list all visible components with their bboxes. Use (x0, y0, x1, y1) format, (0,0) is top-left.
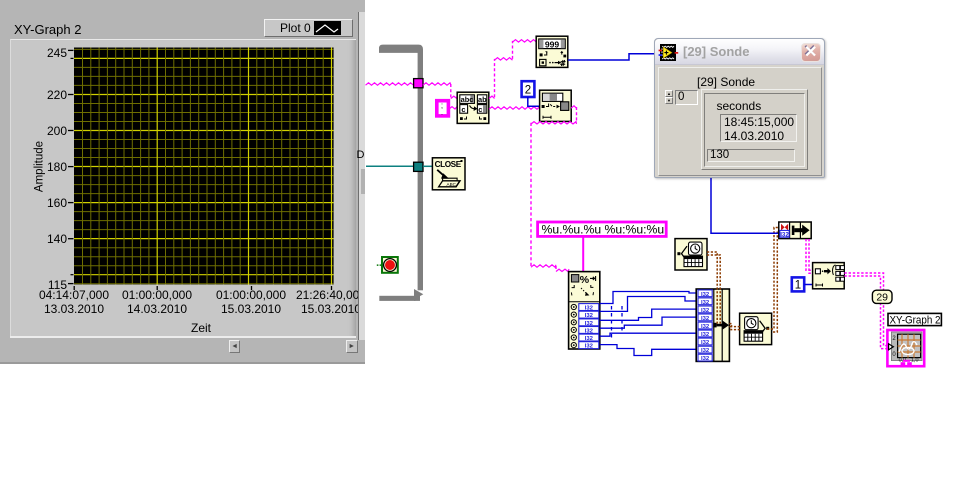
node: Close File (CLOSE) (432, 158, 465, 190)
svg-text:I32: I32 (780, 231, 789, 238)
x axis label Zeit (178, 321, 224, 335)
wire: string constant to Match Pattern (449, 107, 457, 109)
pane (10, 39, 356, 337)
svg-text:I32: I32 (701, 316, 710, 322)
svg-text:%u.%u.%u %u:%u:%u: %u.%u.%u %u:%u:%u (542, 223, 665, 237)
plot legend (264, 19, 353, 37)
wire: match output to Decimal String To Number (489, 96, 495, 98)
wire: constant 1 to Index Array (804, 284, 812, 286)
svg-text:I32: I32 (701, 324, 710, 330)
svg-text:I32: I32 (585, 313, 594, 319)
horizontal scrollbar right button (346, 340, 358, 353)
node: Match Pattern (abc) (457, 92, 489, 123)
130 display (707, 149, 795, 162)
svg-text:I32: I32 (585, 344, 594, 350)
svg-text:I32: I32 (585, 321, 594, 327)
probe icon (660, 44, 676, 61)
label: wire label 29 (872, 290, 892, 303)
index spinner (665, 90, 674, 104)
wire: XY pair array from Build Array to Index Array (806, 239, 813, 270)
close button (801, 43, 821, 63)
svg-text:I32: I32 (701, 348, 710, 354)
wire: numeric from probe window to Build Array (711, 178, 779, 233)
svg-text:ABC: ABC (447, 182, 457, 187)
tunnel: magenta string tunnel on loop border (414, 79, 423, 88)
node: Index Array (813, 263, 845, 289)
title bar (655, 39, 824, 65)
right scrollbar strip (358, 12, 366, 340)
wire: six I32 wires from Scan From String to Bundle (600, 292, 697, 304)
time display (720, 114, 797, 142)
wire: format string to Scan From String (582, 238, 584, 272)
wire: string wire tunnel to vertical drop (423, 83, 451, 85)
wire: string subset output routed down to Scan From String (571, 106, 577, 108)
svg-text:I32: I32 (701, 300, 710, 306)
tunnel: teal refnum tunnel on loop border (414, 162, 423, 171)
svg-text:I32: I32 (585, 336, 594, 342)
svg-text:CLOSE: CLOSE (435, 160, 462, 169)
y scale labels (47, 46, 67, 60)
node: Bundle (date/time record, 9 elements) (696, 289, 729, 362)
svg-text:I32: I32 (701, 292, 710, 298)
wire: cluster from Bundle output to Seconds To Date/Time (729, 324, 740, 327)
window: probe [29] Sonde (654, 38, 825, 178)
svg-text:2: 2 (525, 85, 531, 97)
node: Scan From String (expanded, 6 outputs) (569, 272, 600, 350)
structure: while-loop right border (418, 52, 423, 290)
wire: date/time cluster from Date/Time To Seconds down to Bundle arrow (707, 252, 717, 324)
constant: numeric 2 (522, 81, 535, 97)
horizontal scrollbar left button (229, 340, 241, 353)
structure: while-loop top border (379, 45, 423, 53)
node: Decimal String To Number (999) (536, 36, 568, 67)
wire: constant 2 to String Subset (528, 97, 540, 106)
graph label (14, 22, 81, 37)
svg-text:I32: I32 (701, 308, 710, 314)
terminal: stop button (red/green LED) (382, 257, 398, 273)
seconds label (717, 99, 762, 113)
amplitude axis label (34, 137, 47, 197)
wire: teal refnum wire to Close File (423, 165, 433, 167)
constant: format string %u.%u.%u %u:%u:%u (538, 222, 667, 236)
wire: string vertical drop to Match Pattern (450, 84, 452, 97)
svg-text:I32: I32 (701, 332, 710, 338)
window bottom edge (0, 362, 365, 365)
client area (658, 67, 822, 176)
wire: file refnum wire (teal) from panel (366, 165, 414, 167)
svg-text:29: 29 (876, 292, 888, 304)
stray letter D (357, 149, 365, 161)
constant: numeric 1 (792, 277, 804, 291)
wire: cluster from Seconds To Date/Time up to Build Array (767, 228, 779, 330)
title text (683, 44, 749, 59)
structure: while-loop bottom border with arrow (379, 296, 415, 301)
svg-text:c: c (478, 105, 482, 114)
scrollbar thumb (361, 169, 366, 194)
svg-text:c: c (461, 105, 465, 114)
cluster frame outer (701, 89, 808, 170)
svg-text:XY-Graph 2: XY-Graph 2 (890, 315, 941, 327)
label: XY-Graph 2 terminal label (888, 313, 941, 325)
terminal: XY-Graph 2 indicator (887, 330, 924, 366)
x scale labels (37, 289, 111, 316)
svg-text:999: 999 (545, 39, 560, 49)
svg-text:abc: abc (461, 95, 474, 104)
wire: numeric output to probe window (568, 54, 656, 60)
probe label (697, 75, 755, 89)
wire: string wire from panel to tunnel (366, 83, 415, 85)
svg-text:%: % (580, 274, 590, 286)
svg-text:.: . (441, 108, 443, 117)
svg-text:1,0: 1,0 (911, 358, 919, 364)
node: Seconds To Date/Time (740, 313, 772, 344)
svg-text:I32: I32 (585, 306, 594, 312)
svg-text:1: 1 (795, 280, 801, 292)
node: Date/Time To Seconds (675, 239, 707, 270)
graph plot area and scales (0, 0, 365, 364)
window: XY-Graph front panel (0, 0, 365, 364)
node: String Subset (540, 90, 572, 121)
wire: match output 2 to String Subset (489, 107, 540, 109)
constant: string constant (separator) (437, 101, 449, 116)
node: Build Array (timestamp + value) (779, 222, 811, 239)
svg-text:I32: I32 (701, 356, 710, 362)
svg-text:ab: ab (478, 95, 487, 104)
wire: XY cluster wire to XY-Graph terminal (844, 273, 887, 346)
svg-text:I32: I32 (701, 340, 710, 346)
svg-text:I32: I32 (585, 328, 594, 334)
